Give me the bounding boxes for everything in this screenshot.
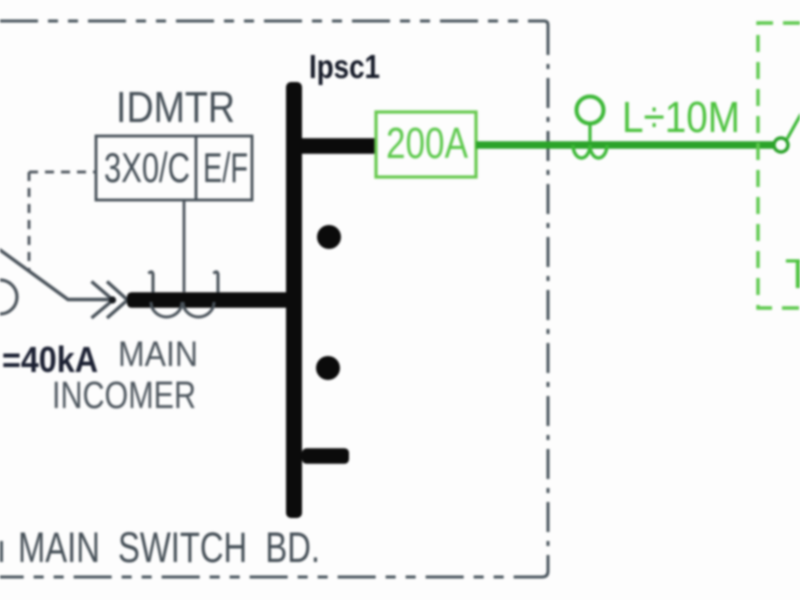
wire: relay to incomer CT (vertical) — [183, 200, 186, 292]
label =40kA — [2, 339, 98, 380]
svg-text:INCOMER: INCOMER — [52, 375, 196, 417]
breaker hinge circle (cut off at left) — [0, 280, 17, 314]
svg-text:E/F: E/F — [203, 144, 248, 191]
incomer bar (thick black) — [127, 292, 302, 308]
transformer enclosure (green dashed) — [758, 23, 800, 308]
CT loops on incomer bar — [151, 302, 214, 317]
spare feeder stub — [302, 448, 349, 464]
chevron arrow 1 (draw-out contact) — [92, 282, 114, 319]
svg-text:3X0/C: 3X0/C — [104, 144, 190, 191]
cable: green feeder line — [476, 141, 774, 149]
svg-text:T: T — [785, 250, 800, 297]
enclosure border: top edge — [0, 21, 548, 25]
cable label L÷10M — [622, 93, 740, 142]
relay box label 3X0/C — [104, 144, 190, 191]
enclosure border: left edge fragment — [0, 541, 3, 562]
relay label IDMTR — [116, 83, 235, 132]
enclosure border: bottom edge — [0, 571, 548, 577]
CT on cable: stem — [588, 124, 591, 142]
feeder bar to 200A breaker — [302, 138, 376, 154]
wire: dashed trip link horizontal — [29, 171, 96, 174]
label INCOMER — [52, 375, 196, 417]
svg-text:=40kA: =40kA — [2, 339, 98, 380]
chevron arrow 2 (draw-out contact) — [107, 282, 128, 319]
svg-text:MAIN: MAIN — [118, 335, 198, 374]
CT on cable: circle — [577, 97, 604, 124]
breaker box 200A — [376, 112, 476, 177]
svg-text:IDMTR: IDMTR — [116, 83, 235, 132]
label MAIN SWITCH BD. — [18, 524, 320, 572]
breaker blade (diagonal) — [0, 247, 111, 300]
relay box label E/F — [203, 144, 248, 191]
label Ipsc1 — [309, 48, 380, 85]
svg-text:MAIN SWITCH BD.: MAIN SWITCH BD. — [18, 524, 320, 572]
isolator contact circle (right) — [774, 138, 788, 152]
enclosure border: right edge — [547, 25, 550, 571]
CT ticks above incomer bar — [149, 272, 219, 293]
junction dot lower — [316, 356, 340, 380]
svg-text:Ipsc1: Ipsc1 — [309, 48, 380, 85]
label MAIN — [118, 335, 198, 374]
relay box U1 — [96, 136, 252, 200]
svg-text:L÷10M: L÷10M — [622, 93, 740, 142]
transformer label T — [785, 250, 800, 297]
junction dot upper — [317, 225, 341, 249]
junction dot at blade contact — [109, 296, 116, 303]
isolator blade (right) — [787, 114, 800, 139]
busbar (vertical thick black) — [286, 82, 302, 518]
wire: dashed trip link vertical — [28, 172, 31, 272]
label 200A — [386, 119, 469, 168]
CT on cable: loops — [573, 145, 607, 158]
svg-text:200A: 200A — [386, 119, 469, 168]
